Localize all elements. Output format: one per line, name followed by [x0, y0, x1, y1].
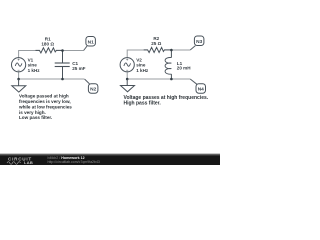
svg-text:sine: sine [28, 63, 38, 68]
wire: R1 right to N1 branch [56, 50, 83, 52]
svg-text:V1: V1 [28, 57, 34, 62]
svg-text:N2: N2 [90, 87, 96, 93]
wire: V2 top to R2 left [127, 50, 148, 58]
node flag N4 [196, 84, 206, 94]
ground right [121, 79, 135, 92]
node flag N1 [86, 37, 96, 47]
junction dot bottom of L1 [170, 78, 173, 81]
wire: V1 top to R1 left [19, 51, 40, 59]
junction dot bottom of C1 [61, 78, 64, 81]
resistor R1 [36, 48, 63, 53]
resistor R2 [144, 47, 172, 52]
svg-text:V2: V2 [136, 57, 142, 62]
wire: diagonal to N4 flag [190, 79, 197, 84]
ground left [12, 79, 26, 92]
junction dot top of L1 [170, 49, 173, 52]
svg-text:LAB: LAB [24, 160, 33, 165]
wire: left bottom rail [19, 78, 85, 80]
node flag N3 [194, 36, 204, 46]
wire: V1 bottom lead [18, 72, 20, 80]
inductor L1 [165, 50, 171, 79]
svg-text:25 Ω: 25 Ω [151, 41, 161, 46]
svg-text:http://circuitlab.com/c7qm9fa2: http://circuitlab.com/c7qm9fa2b43 [48, 160, 100, 164]
svg-text:sine: sine [136, 63, 146, 68]
svg-text:25 mF: 25 mF [72, 66, 85, 71]
svg-text:N3: N3 [196, 39, 202, 45]
svg-text:N1: N1 [88, 40, 94, 46]
svg-text:1 kHz: 1 kHz [28, 68, 41, 73]
wire: R2 right to N3 branch [165, 49, 190, 51]
svg-text:1 kHz: 1 kHz [136, 68, 149, 73]
voltage source V2 [120, 58, 134, 72]
svg-text:20 mH: 20 mH [177, 66, 191, 71]
node flag N2 [88, 84, 98, 94]
voltage source V1 [12, 58, 26, 72]
svg-text:N4: N4 [198, 87, 204, 93]
wire: right bottom rail [127, 78, 190, 80]
logo wave [7, 162, 21, 165]
wire: diagonal to N2 flag [85, 79, 90, 84]
capacitor C1 [55, 51, 70, 80]
junction dot top of C1 [61, 49, 64, 52]
junction dot below V1 [17, 78, 20, 81]
wire: diagonal to N3 flag [190, 46, 195, 50]
wire: diagonal to N1 flag [84, 46, 87, 50]
svg-text:180 Ω: 180 Ω [41, 42, 54, 47]
footer bar [0, 155, 220, 165]
wire: V2 bottom lead [126, 72, 128, 80]
junction dot below V2 [126, 78, 129, 81]
